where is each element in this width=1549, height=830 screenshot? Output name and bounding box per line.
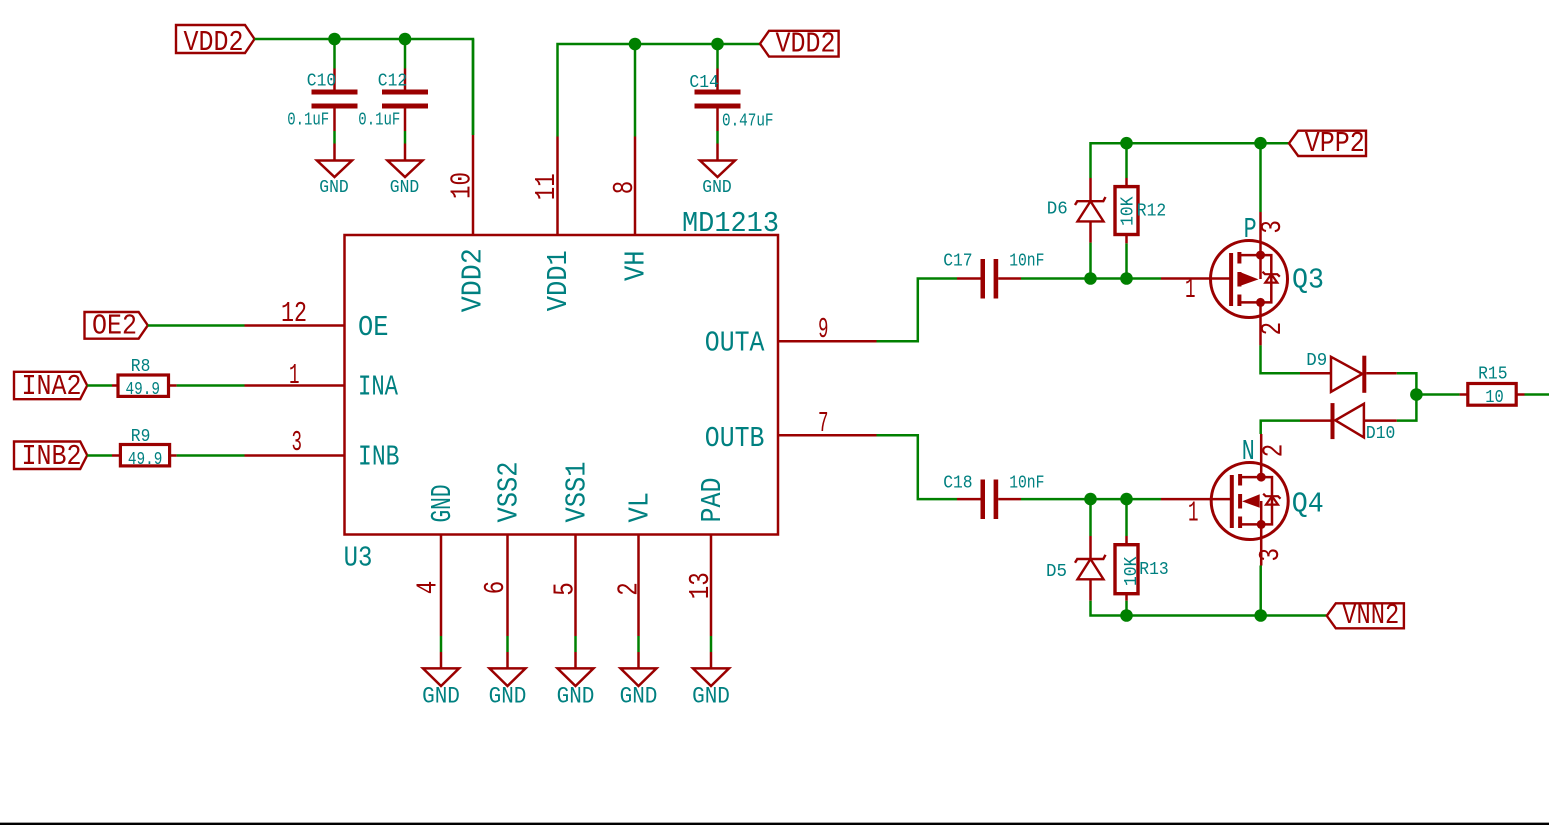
wire — [506, 636, 509, 652]
name label U3 — [344, 542, 373, 575]
svg-text:Q4: Q4 — [1292, 488, 1324, 521]
diode D10 — [1300, 419, 1331, 422]
svg-text:VPP2: VPP2 — [1305, 127, 1365, 160]
ground — [716, 144, 719, 162]
junction — [1120, 609, 1133, 622]
svg-text:GND: GND — [692, 684, 730, 710]
node VPP2 — [1289, 131, 1366, 156]
pin 1 INA — [245, 384, 345, 387]
svg-text:GND: GND — [390, 176, 419, 198]
wire Q3 source to D9 — [1261, 345, 1301, 373]
wire — [637, 636, 640, 652]
svg-text:VDD2: VDD2 — [776, 27, 836, 60]
junction — [1254, 137, 1267, 150]
svg-text:GND: GND — [422, 684, 460, 710]
diode D5 zener — [1089, 536, 1092, 559]
pin 2 VL — [637, 535, 640, 637]
value label MD1213 — [682, 207, 779, 240]
svg-text:OE: OE — [358, 311, 389, 344]
svg-text:INB2: INB2 — [22, 440, 82, 473]
wire — [1021, 277, 1161, 280]
IC U3 MD1213 body — [345, 235, 779, 535]
pin 12 OE — [245, 324, 345, 327]
wire — [404, 39, 407, 69]
svg-text:VDD2: VDD2 — [184, 26, 244, 59]
svg-text:GND: GND — [489, 684, 527, 710]
pin 10 VDD2 — [472, 135, 475, 235]
svg-text:R12: R12 — [1137, 199, 1166, 221]
svg-text:1: 1 — [1185, 273, 1196, 306]
capacitor C17 10nF — [957, 277, 981, 280]
svg-text:VL: VL — [624, 492, 657, 523]
capacitor C18 10nF — [957, 498, 981, 501]
svg-text:2: 2 — [1256, 322, 1289, 336]
svg-text:R15: R15 — [1478, 362, 1507, 384]
wire VDD2 horizontal — [255, 39, 474, 135]
wire — [87, 384, 112, 387]
wire OE2 to pin 12 — [148, 324, 245, 327]
pin 9 OUTA — [778, 340, 877, 343]
pin 3 — [1256, 220, 1289, 234]
junction — [1084, 272, 1097, 285]
resistor R9 49.9 — [112, 454, 120, 457]
junction — [399, 33, 412, 46]
pin 5 VSS1 — [574, 535, 577, 637]
junction — [328, 33, 341, 46]
svg-text:N: N — [1242, 435, 1255, 468]
wire — [716, 44, 719, 69]
svg-text:C14: C14 — [689, 71, 718, 93]
resistor R13 10K — [1125, 536, 1128, 545]
svg-text:VNN2: VNN2 — [1342, 599, 1399, 632]
svg-text:VSS2: VSS2 — [493, 462, 526, 523]
svg-text:GND: GND — [620, 684, 658, 710]
svg-text:12: 12 — [281, 297, 307, 330]
svg-text:9: 9 — [818, 313, 829, 346]
junction — [629, 38, 642, 51]
pin 2 — [1256, 322, 1289, 336]
svg-text:Q3: Q3 — [1292, 264, 1324, 297]
svg-text:U3: U3 — [344, 542, 373, 575]
svg-text:10: 10 — [445, 172, 478, 199]
wire D6 stub — [1089, 243, 1092, 279]
ground — [506, 652, 509, 668]
node INA2 — [14, 372, 87, 399]
resistor R15 10 — [1460, 393, 1468, 396]
pin 1 — [1188, 497, 1199, 530]
diode D6 zener — [1089, 178, 1092, 201]
node INB2 — [14, 442, 87, 470]
ground — [637, 652, 640, 668]
svg-text:11: 11 — [530, 173, 563, 200]
pin 3 — [1254, 548, 1287, 562]
svg-text:3: 3 — [292, 426, 303, 459]
svg-text:D10: D10 — [1366, 422, 1395, 444]
svg-text:D9: D9 — [1306, 349, 1327, 371]
svg-text:4: 4 — [412, 581, 445, 595]
wire R12 stub — [1125, 243, 1128, 278]
node OE2 — [85, 312, 148, 339]
svg-text:10: 10 — [1485, 386, 1504, 408]
junction node A — [1410, 388, 1423, 401]
pin 7 OUTB — [778, 434, 877, 437]
wire pin8 drop — [634, 44, 637, 137]
svg-text:INA: INA — [358, 371, 398, 404]
pin 8 VH — [634, 137, 637, 236]
node VNN2 — [1327, 603, 1404, 628]
svg-text:OUTA: OUTA — [705, 327, 765, 360]
svg-text:MD1213: MD1213 — [682, 207, 779, 240]
junction — [1254, 609, 1267, 622]
wire — [574, 636, 577, 652]
pin 4 GND — [440, 535, 443, 637]
resistor R8 49.9 — [112, 384, 118, 387]
capacitor C12 — [404, 69, 407, 91]
pin 2 — [1257, 444, 1290, 458]
wire — [1021, 498, 1161, 501]
ground — [404, 144, 407, 162]
wire — [87, 454, 112, 457]
junction — [1120, 272, 1133, 285]
frame bottom border — [0, 823, 1549, 826]
svg-text:GND: GND — [319, 176, 348, 198]
svg-text:2: 2 — [1257, 444, 1290, 458]
svg-text:0.47uF: 0.47uF — [722, 110, 774, 132]
svg-text:0.1uF: 0.1uF — [358, 109, 400, 131]
junction — [1120, 493, 1133, 506]
pin 6 VSS2 — [506, 535, 509, 637]
wire — [1416, 393, 1459, 396]
wire OUTA net — [877, 279, 958, 342]
svg-text:10nF: 10nF — [1009, 250, 1044, 272]
diode D9 — [1300, 372, 1331, 375]
pin 13 PAD — [710, 535, 713, 637]
wire VNN2 rail — [1091, 601, 1327, 616]
svg-text:D5: D5 — [1046, 560, 1067, 582]
wire — [1125, 143, 1128, 178]
wire — [404, 131, 407, 144]
wire D5 stub — [1089, 499, 1092, 536]
svg-text:49.9: 49.9 — [128, 448, 162, 470]
svg-text:3: 3 — [1254, 548, 1287, 562]
node VDD2 (left supply label) — [176, 25, 255, 53]
wire — [1259, 566, 1262, 616]
pin 3 INB — [245, 454, 345, 457]
svg-text:VH: VH — [620, 251, 653, 282]
svg-text:VDD1: VDD1 — [542, 250, 575, 311]
wire — [1397, 373, 1417, 394]
junction — [1120, 137, 1133, 150]
ground — [574, 652, 577, 668]
pin 11 VDD1 — [556, 137, 559, 236]
transistor Q3 (P-MOSFET) — [1161, 277, 1211, 280]
ground — [710, 652, 713, 668]
pin 1 — [1185, 273, 1196, 306]
svg-text:GND: GND — [557, 684, 595, 710]
svg-text:6: 6 — [479, 581, 512, 595]
capacitor C14 — [716, 69, 719, 91]
svg-text:1: 1 — [289, 359, 300, 392]
svg-text:OUTB: OUTB — [705, 422, 765, 455]
wire — [333, 131, 336, 144]
svg-text:8: 8 — [608, 181, 641, 195]
svg-text:13: 13 — [684, 572, 717, 599]
svg-text:OE2: OE2 — [92, 310, 137, 343]
wire to edge — [1525, 393, 1549, 396]
svg-text:R13: R13 — [1139, 558, 1168, 580]
wire VDD2 down to pin 10 — [472, 39, 475, 135]
svg-text:5: 5 — [549, 582, 582, 596]
resistor R12 10K — [1125, 178, 1128, 187]
svg-text:INB: INB — [358, 441, 400, 474]
svg-text:P: P — [1244, 213, 1257, 246]
svg-text:R9: R9 — [131, 425, 151, 447]
node VDD2 (right supply label) — [760, 31, 839, 57]
ground — [333, 144, 336, 162]
wire R13 stub — [1125, 499, 1128, 536]
svg-text:1: 1 — [1188, 497, 1199, 530]
svg-text:PAD: PAD — [696, 478, 729, 523]
wire — [710, 636, 713, 652]
wire — [716, 131, 719, 144]
svg-text:0.1uF: 0.1uF — [287, 109, 329, 131]
wire VPP2 rail — [1091, 143, 1290, 178]
wire VDD2 right rail — [558, 44, 761, 137]
wire Q4 drain to D10 — [1261, 421, 1300, 434]
svg-text:C10: C10 — [307, 70, 336, 92]
svg-text:VSS1: VSS1 — [561, 462, 594, 523]
svg-text:10K: 10K — [1116, 196, 1138, 226]
transistor Q4 (N-MOSFET) — [1161, 498, 1211, 501]
svg-text:C17: C17 — [943, 250, 972, 272]
ground — [440, 652, 443, 668]
wire — [1397, 395, 1417, 421]
svg-text:VDD2: VDD2 — [457, 248, 490, 312]
wire OUTB net — [877, 435, 958, 499]
svg-text:GND: GND — [426, 485, 459, 523]
wire — [333, 39, 336, 69]
svg-text:C18: C18 — [943, 472, 972, 494]
junction — [711, 38, 724, 51]
wire — [177, 384, 245, 387]
svg-text:D6: D6 — [1047, 197, 1068, 219]
wire — [177, 454, 245, 457]
capacitor C10 — [333, 69, 336, 91]
svg-text:10nF: 10nF — [1009, 472, 1044, 494]
svg-text:49.9: 49.9 — [126, 378, 161, 400]
svg-text:R8: R8 — [131, 355, 151, 377]
wire — [440, 636, 443, 652]
svg-text:GND: GND — [702, 176, 731, 198]
svg-text:C12: C12 — [378, 70, 407, 92]
junction — [1084, 493, 1097, 506]
svg-text:INA2: INA2 — [22, 370, 82, 403]
svg-text:2: 2 — [612, 582, 645, 596]
svg-text:3: 3 — [1256, 220, 1289, 234]
svg-text:7: 7 — [818, 407, 829, 440]
